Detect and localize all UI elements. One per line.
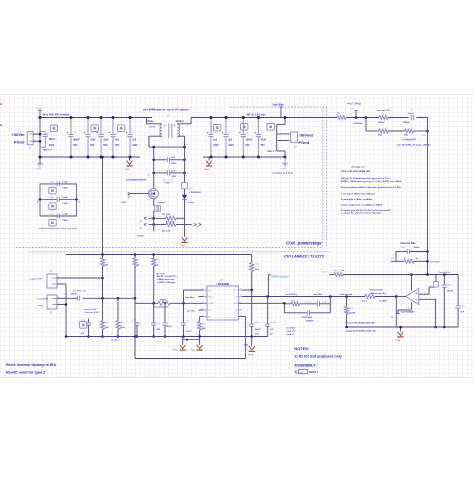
svg-text:swr rail 0 %?: swr rail 0 %? xyxy=(377,110,391,112)
resistor R10 1k xyxy=(153,255,155,259)
wire Isense down xyxy=(153,225,155,232)
svg-text:100Ω: 100Ω xyxy=(62,188,67,190)
svg-text:+= depot R1, cash D1, reject m: += depot R1, cash D1, reject main goal xyxy=(341,212,381,215)
wire J4 pin2 xyxy=(57,304,66,306)
svg-text:47uF: 47uF xyxy=(261,139,267,142)
svg-text:Vout+3w/Vq: Vout+3w/Vq xyxy=(439,271,452,274)
wire FB stub xyxy=(199,309,204,311)
svg-text:D pwm pole is 8kHz, so 58kHz: D pwm pole is 8kHz, so 58kHz xyxy=(341,199,373,201)
svg-text:D pass single pole is 5+ 8kHZ,: D pass single pole is 5+ 8kHZ, so 58kHz xyxy=(341,205,383,207)
svg-text:1): 1) xyxy=(294,370,297,374)
svg-text:1uF: 1uF xyxy=(171,157,176,159)
wire Vout fb line xyxy=(343,274,458,276)
svg-text:Vout-36dg: Vout-36dg xyxy=(273,103,285,106)
svg-text:100nF: 100nF xyxy=(255,329,262,331)
capacitor C21 xyxy=(251,290,253,324)
capacitor C13 extra xyxy=(136,321,138,324)
svg-text:UVLO: UVLO xyxy=(208,296,214,298)
svg-text:JDSGAN6R1M40SS: JDSGAN6R1M40SS xyxy=(126,179,147,182)
svg-text:1w8?: 1w8? xyxy=(322,301,328,303)
svg-text:GND: GND xyxy=(233,303,238,305)
svg-text:Lwql 80/5+: Lwql 80/5+ xyxy=(430,261,441,263)
svg-text:ampl: ampl xyxy=(38,305,43,307)
svg-text:47uF: 47uF xyxy=(186,330,192,333)
svg-text:C1Ω: C1Ω xyxy=(447,284,452,286)
capacitor C9 output bank xyxy=(225,118,227,135)
label gate flag xyxy=(128,192,130,195)
resistor R5 lower xyxy=(405,129,414,133)
svg-text:swrr Vfwd (M) + M (s/w) + 3W d: swrr Vfwd (M) + M (s/w) + 3W d/w xyxy=(397,145,432,147)
svg-text:Duty for inductor R3dc at bal: Duty for inductor R3dc at bal with sprea… xyxy=(341,186,402,189)
svg-text:50V: 50V xyxy=(90,145,95,147)
resistor R18 xyxy=(391,260,404,262)
inductor L1 coupled xyxy=(146,118,148,124)
svg-text:1w: 1w xyxy=(342,270,345,272)
wire U2 Vplus xyxy=(411,275,413,291)
svg-text:+4w (7) MVq5: +4w (7) MVq5 xyxy=(347,104,362,106)
svg-text:TLV271MDBV: TLV271MDBV xyxy=(401,312,416,314)
ground RT red xyxy=(199,337,201,345)
connector J2 xyxy=(291,132,298,142)
svg-text:100V: 100V xyxy=(171,176,177,178)
capacitor C8 output bank xyxy=(210,118,212,135)
svg-text:dw/8kHz: dw/8kHz xyxy=(306,320,314,322)
wire PGnd bottom bus left xyxy=(40,156,140,158)
svg-text:G1Ω: G1Ω xyxy=(255,334,260,336)
edge mark red xyxy=(0,104,2,105)
ground PGnd mid red xyxy=(208,157,210,161)
ground PGnd output xyxy=(282,162,287,164)
svg-text:R?, 1Ω5: R?, 1Ω5 xyxy=(162,214,171,216)
CUK powerstage dashed box xyxy=(16,107,332,252)
wire U2 inv fb xyxy=(419,293,429,295)
NC box 5 xyxy=(241,124,248,131)
svg-text:COMP: COMP xyxy=(208,303,215,305)
svg-text:C1Ω: C1Ω xyxy=(81,320,86,322)
svg-text:50V: 50V xyxy=(103,145,108,147)
svg-text:PGnd: PGnd xyxy=(125,169,131,171)
svg-text:PGnd: PGnd xyxy=(180,245,186,247)
svg-text:PGnd: PGnd xyxy=(299,140,310,145)
wire right vertical xyxy=(457,275,459,306)
svg-text:100nF: 100nF xyxy=(447,290,454,292)
ground PGnd input xyxy=(37,162,42,164)
svg-text:1Ω: 1Ω xyxy=(391,258,394,260)
svg-text:PWq: PWq xyxy=(281,169,287,171)
svg-text:<PWM interrupt>: <PWM interrupt> xyxy=(271,276,290,279)
diode D1 xyxy=(182,182,188,184)
svg-text:Ctrl LM6022 / TLV271: Ctrl LM6022 / TLV271 xyxy=(284,253,325,258)
svg-text:7 can typ at 78kHz show 3W gai: 7 can typ at 78kHz show 3W gain xyxy=(341,192,376,195)
svg-text:100V: 100V xyxy=(213,145,219,147)
capacitor C10 output bank xyxy=(242,118,244,135)
svg-text:R0402 ?: R0402 ? xyxy=(309,371,319,374)
snub dashed mark xyxy=(164,179,173,182)
svg-text:1uwr7: 1uwr7 xyxy=(408,113,415,115)
resistor R16 div xyxy=(346,297,348,307)
resistor R4 lower xyxy=(366,130,379,132)
svg-text:50V: 50V xyxy=(246,145,251,147)
capacitor C2 input bank xyxy=(70,118,72,135)
svg-text:50V: 50V xyxy=(261,145,266,147)
wire opamp gnd bus xyxy=(347,326,459,328)
svg-text:50V: 50V xyxy=(115,145,120,147)
node stub mid xyxy=(355,111,357,118)
svg-text:+C1 100: +C1 100 xyxy=(187,311,196,313)
svg-text:2: 2 xyxy=(288,139,289,141)
svg-text:Freq STB2: Freq STB2 xyxy=(38,298,49,301)
svg-text:-36Vout: -36Vout xyxy=(299,132,314,137)
feedback jumper box xyxy=(434,282,439,287)
capacitor C18 top xyxy=(410,115,412,120)
svg-text:100uF: 100uF xyxy=(49,139,56,141)
svg-text:C1Ω: C1Ω xyxy=(50,182,55,184)
capacitor C19 lead xyxy=(396,251,407,253)
svg-text:swr 56/1?: swr 56/1? xyxy=(286,326,296,329)
svg-text:gate: gate xyxy=(122,201,127,204)
ground C15 red xyxy=(182,337,184,345)
svg-text:58w R1, 7q7 58P 577+: 58w R1, 7q7 58P 577+ xyxy=(157,276,178,278)
svg-text:VIN: VIN xyxy=(208,290,212,292)
svg-text:10Pq5: 10Pq5 xyxy=(378,122,385,124)
svg-text:keep low 80/4: keep low 80/4 xyxy=(401,242,417,245)
resistor R7 1k xyxy=(134,255,136,259)
svg-text:+ Vdiode: + Vdiode xyxy=(186,202,195,204)
capacitor C16a xyxy=(316,301,318,306)
NC box 4 xyxy=(214,125,221,132)
ground PGnd left red xyxy=(129,157,131,161)
wire gate xyxy=(129,193,148,195)
svg-text:100uF: 100uF xyxy=(71,293,78,295)
wire sense to rows xyxy=(153,211,155,224)
wire CS row to opamp xyxy=(242,296,365,298)
svg-text:(8Hz at +pc 5V): (8Hz at +pc 5V) xyxy=(370,292,386,295)
svg-text:100Ω: 100Ω xyxy=(62,203,67,205)
svg-text:R1 1w in: R1 1w in xyxy=(157,273,166,275)
resistor R2 1k xyxy=(337,116,346,120)
capacitor Cb row2 xyxy=(154,172,168,174)
svg-text:R1Ω-5: R1Ω-5 xyxy=(160,300,167,302)
svg-text:1uF: 1uF xyxy=(171,170,176,172)
svg-text:+4 MVqw: +4 MVqw xyxy=(353,122,363,125)
svg-text:1uwF: 1uwF xyxy=(62,214,68,216)
connector J4 xyxy=(47,295,57,309)
svg-text:PWq: PWq xyxy=(173,349,177,351)
svg-text:resistors R1 / R1(W) 3/5W +W+: resistors R1 / R1(W) 3/5W +W+ xyxy=(345,321,376,324)
NC box 3 xyxy=(118,125,125,132)
svg-text:+4w swr+3w: +4w swr+3w xyxy=(340,293,353,296)
svg-text:5: 5 xyxy=(240,308,241,310)
resistor R13 3k23 xyxy=(117,299,119,321)
svg-text:+0 (dppq) MV: +0 (dppq) MV xyxy=(402,139,416,141)
svg-text:100V: 100V xyxy=(49,145,55,147)
node NF1 stub top-left xyxy=(39,111,41,118)
wire control top rail xyxy=(66,254,252,256)
svg-text:Cost / opt note single raw: Cost / opt note single raw xyxy=(341,170,370,173)
resistor R12 13k xyxy=(102,278,104,321)
capacitor C3 input bank xyxy=(87,118,89,135)
wire row FB xyxy=(135,302,158,304)
svg-text:no demo: no demo xyxy=(111,340,120,342)
svg-text:7: 7 xyxy=(240,295,241,297)
resistor Rs sense xyxy=(155,206,157,211)
svg-text:C1Ω: C1Ω xyxy=(255,322,260,324)
svg-text:8: 8 xyxy=(240,288,241,290)
op-amp U1 LM5022 controller xyxy=(207,286,239,320)
capacitor C16 parallel xyxy=(283,304,285,313)
svg-text:47uF: 47uF xyxy=(90,139,96,142)
capacitor C14 extra xyxy=(164,303,166,323)
svg-text:snubber experiments, wasn't ne: snubber experiments, wasn't nec. used xyxy=(39,227,78,230)
capacitor C6 input bank xyxy=(129,118,131,135)
resistor R row2 xyxy=(154,224,166,226)
svg-text:LM5022MM: LM5022MM xyxy=(217,284,229,286)
wire gnd tie xyxy=(183,339,200,341)
wire COMP pin xyxy=(239,302,285,304)
svg-text:PDS5100H: PDS5100H xyxy=(190,192,201,194)
svg-text:1uwF: 1uwF xyxy=(62,197,68,199)
resistor R19 fb line xyxy=(330,274,335,276)
svg-text:R1Ω: R1Ω xyxy=(349,308,354,310)
wire top bus right of transformer xyxy=(191,117,337,119)
capacitor C11 1nF xyxy=(80,322,87,329)
transistor Q1 GaN FET xyxy=(148,189,158,199)
wire gnd loop to SS xyxy=(134,337,136,359)
svg-text:C1Ω: C1Ω xyxy=(460,305,465,307)
svg-text:7+3w+7?: 7+3w+7? xyxy=(304,301,313,303)
svg-text:shutdown 80/W: shutdown 80/W xyxy=(84,311,100,314)
svg-text:Isense: Isense xyxy=(137,236,144,238)
snubber RC network xyxy=(40,184,77,216)
capacitor C17 fb xyxy=(443,275,445,285)
capacitor C11 output bank xyxy=(258,118,260,135)
ground ctrl red xyxy=(251,336,253,346)
capacitor C20 inline xyxy=(456,305,461,307)
svg-text:MB1,6 ?: MB1,6 ? xyxy=(268,151,277,153)
svg-text:DC level 3/5: DC level 3/5 xyxy=(370,290,383,292)
node divider junction xyxy=(365,116,368,119)
svg-text:PWR: PWR xyxy=(37,109,43,111)
wire node B to diode xyxy=(184,147,186,183)
svg-text:180 (g) / 3x Outputcaps was e: 180 (g) / 3x Outputcaps was expensive fo… xyxy=(341,177,390,180)
svg-text:PGnd: PGnd xyxy=(14,140,25,145)
svg-text:100V: 100V xyxy=(132,145,138,147)
resistor R3 top xyxy=(379,116,388,120)
capacitor C4 100uF xyxy=(76,296,78,301)
wire comp gnd bus xyxy=(66,336,268,338)
svg-text:1w 48kj: 1w 48kj xyxy=(379,300,387,303)
svg-text:4Ω, 1w5: 4Ω, 1w5 xyxy=(162,229,171,232)
wire PGnd bottom bus right xyxy=(203,156,285,158)
svg-text:R1Ω: R1Ω xyxy=(255,263,260,265)
svg-text:C1Ω: C1Ω xyxy=(50,197,55,199)
svg-text:680uF: 680uF xyxy=(73,140,80,142)
wire OUT pin xyxy=(242,289,252,291)
svg-text:100V: 100V xyxy=(228,145,234,147)
wire J3 pin2 xyxy=(57,283,66,285)
wire UVLO stub xyxy=(199,296,204,298)
wire PWM label drop xyxy=(267,275,269,297)
capacitor C15 vin xyxy=(181,322,186,324)
svg-text:x4 image swr: x4 image swr xyxy=(351,165,365,168)
svg-text:100Ω: 100Ω xyxy=(62,220,67,222)
svg-text:+0.58/577: 58dwgp+: +0.58/577: 58dwgp+ xyxy=(157,282,177,284)
wire +36V top bus left xyxy=(40,117,152,119)
svg-text:1w: 1w xyxy=(416,258,419,260)
capacitor C5 input bank xyxy=(112,118,114,135)
svg-text:1mH(s): 1mH(s) xyxy=(176,120,184,123)
wire fb corner xyxy=(427,118,429,132)
wire J3 pin1 xyxy=(57,277,103,279)
svg-text:NOTES:: NOTES: xyxy=(294,346,309,351)
resistor RT xyxy=(200,316,204,318)
capacitor C1 first xyxy=(40,131,45,133)
connector J1 xyxy=(27,132,33,145)
svg-text:C1Ω: C1Ω xyxy=(50,214,55,216)
svg-text:1) R1 for test purposes only: 1) R1 for test purposes only xyxy=(294,354,342,358)
svg-text:jumper+OMP: jumper+OMP xyxy=(29,277,43,280)
svg-text:PWq: PWq xyxy=(191,349,195,351)
wire U2 out xyxy=(396,295,406,297)
svg-text:Vq: Vq xyxy=(140,220,142,222)
wire Q1 source xyxy=(153,199,155,206)
svg-text:yes 8kHz CTx: yes 8kHz CTx xyxy=(73,290,88,292)
svg-text:10Pq5: 10Pq5 xyxy=(403,122,410,124)
svg-text:BOM3+ - 58uH quad q-pol up to: BOM3+ - 58uH quad q-pol up to ~7+6u+, 80… xyxy=(341,180,402,183)
svg-text:100V: 100V xyxy=(171,163,177,165)
svg-text:PGnd: PGnd xyxy=(248,354,253,356)
svg-text:50V: 50V xyxy=(73,145,78,147)
flag right rows xyxy=(185,224,192,226)
svg-text:startup 50/W: startup 50/W xyxy=(84,308,97,311)
svg-text:+10 digits 2m2 fixed: +10 digits 2m2 fixed xyxy=(272,171,294,174)
node Vout stub xyxy=(280,107,282,112)
resistor R14 row xyxy=(158,301,170,305)
ground below diode red xyxy=(182,237,188,241)
resistor R6 27k xyxy=(102,255,104,259)
svg-text:Rev42: went for type 2: Rev42: went for type 2 xyxy=(6,371,46,375)
svg-text:+dwgprog R1 R1(W) / R1W +W+: +dwgprog R1 R1(W) / R1W +W+ xyxy=(345,329,377,332)
svg-text:Vq: Vq xyxy=(140,227,142,229)
capacitor C22 xyxy=(267,297,269,325)
op-amp U2 TLV271 xyxy=(406,288,419,304)
wire U2 Vminus xyxy=(411,303,413,311)
resistor R17 to out xyxy=(365,295,375,299)
wire J4 pin1 row xyxy=(57,297,77,299)
svg-text:-36V @ 1.5A max: -36V @ 1.5A max xyxy=(246,113,267,116)
capacitor Ca row1 xyxy=(154,159,168,161)
svg-text:low dropout?: low dropout? xyxy=(154,306,169,309)
svg-text:1w04k: 1w04k xyxy=(349,312,356,315)
svg-text:r+58kHz open loop: r+58kHz open loop xyxy=(157,279,176,281)
wire rail drop vertical xyxy=(102,157,104,255)
capacitor C12 n56 xyxy=(153,303,155,323)
svg-text:100uH: 100uH xyxy=(146,120,153,123)
svg-text:+w+8 s?: +w+8 s? xyxy=(286,334,295,336)
svg-text:1sense: 1sense xyxy=(158,202,166,204)
wire diode to ground xyxy=(184,225,186,238)
svg-text:D switch gain 8(3+8)Y 7w 8w. 7: D switch gain 8(3+8)Y 7w 8w. 7nd by leav… xyxy=(341,209,391,212)
wire fb corner2 xyxy=(426,250,429,253)
svg-text:C1Ω 100pF: C1Ω 100pF xyxy=(301,317,313,319)
NC box 1 xyxy=(50,125,57,132)
svg-text:swr 5Pq: swr 5Pq xyxy=(313,294,322,296)
resistor R11 4w7 xyxy=(251,255,253,263)
svg-text:1uwF: 1uwF xyxy=(62,181,68,183)
svg-text:via L40/3N ideas for cost in 3: via L40/3N ideas for cost in 3V1 systems xyxy=(143,109,190,112)
resistor R row1 xyxy=(154,217,166,219)
connector J3 jumper xyxy=(47,274,57,288)
NC box 6 xyxy=(267,124,274,131)
svg-text:100pF: 100pF xyxy=(414,247,421,249)
svg-text:CUK_powerstage: CUK_powerstage xyxy=(286,240,322,245)
svg-text:36 to 40V, 30V nominal: 36 to 40V, 30V nominal xyxy=(43,113,70,116)
svg-text:C4Ω: C4Ω xyxy=(64,293,69,295)
svg-text:+36Vin: +36Vin xyxy=(12,132,25,137)
flag left rows xyxy=(149,217,154,219)
svg-text:Vsw: Vsw xyxy=(166,183,171,185)
svg-text:am 58w (?): am 58w (?) xyxy=(286,294,298,296)
wire input vertical xyxy=(39,118,41,164)
svg-text:PGnd: PGnd xyxy=(204,169,210,171)
wire U2 noninv xyxy=(419,298,436,300)
wire node A to mosfet drain xyxy=(153,147,155,189)
svg-text:47nF: 47nF xyxy=(167,325,173,328)
svg-text:3w+1: 3w+1 xyxy=(362,301,368,303)
svg-text:100uF: 100uF xyxy=(246,140,253,142)
svg-text:+w+8 swr: +w+8 swr xyxy=(286,330,296,333)
svg-text:G1Ω: G1Ω xyxy=(244,344,249,346)
svg-text:1w5q: 1w5q xyxy=(421,135,427,137)
capacitor C4 input bank xyxy=(100,118,102,135)
wire feedback vertical xyxy=(427,131,429,275)
node A junction xyxy=(154,146,185,148)
wire VIN pin xyxy=(184,289,204,291)
resistor R15 xyxy=(284,303,291,305)
ground opamp red xyxy=(400,327,402,332)
svg-text:+C1Ω: +C1Ω xyxy=(270,322,276,324)
svg-text:MB1,6 ?: MB1,6 ? xyxy=(43,150,52,152)
svg-text:47uF: 47uF xyxy=(103,139,109,142)
svg-text:+4w 58w+: +4w 58w+ xyxy=(185,296,195,299)
NC box 2 xyxy=(91,125,98,132)
svg-text:C1Ω: C1Ω xyxy=(401,247,406,249)
svg-text:1: 1 xyxy=(288,132,289,134)
svg-text:3: 3 xyxy=(202,302,203,304)
svg-text:PWq: PWq xyxy=(36,169,42,171)
svg-text:1:0.33: 1:0.33 xyxy=(149,126,156,128)
svg-text:ASSEMBLY:: ASSEMBLY: xyxy=(294,363,316,368)
svg-text:Rev4: internal OpAmp is EIA: Rev4: internal OpAmp is EIA xyxy=(6,363,56,367)
